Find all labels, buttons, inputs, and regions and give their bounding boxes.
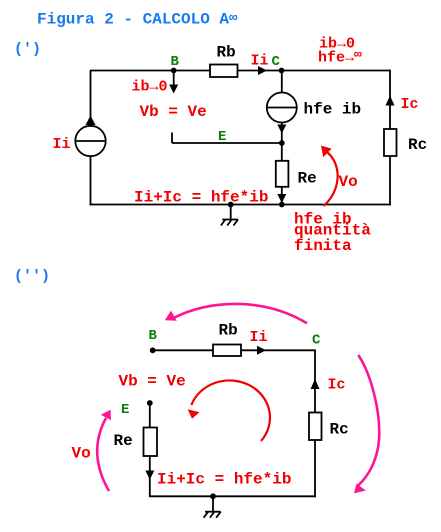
arrow Ii (right, circuit2) xyxy=(257,346,266,355)
magenta arrowhead top (left) xyxy=(165,311,177,321)
wire: circuit1 left rail lower xyxy=(90,156,92,205)
wire: E2 down to Re xyxy=(149,403,151,428)
wire: circuit2 top rail xyxy=(153,349,315,351)
svg-text:('): (') xyxy=(14,41,41,58)
wire: C down to dependent source xyxy=(281,71,283,93)
wire: circuit1 left rail upper xyxy=(90,71,92,127)
svg-text:C: C xyxy=(312,333,321,349)
svg-text:Ic: Ic xyxy=(401,96,419,113)
wire: circuit2 right rail upper xyxy=(314,349,316,412)
wire: circuit2 bottom rail xyxy=(149,495,316,497)
magenta arrowhead right (down-left) xyxy=(354,484,366,494)
magenta arc left Vo (circuit2) xyxy=(97,418,109,491)
red arc arrowhead (circuit2, down-left) xyxy=(188,409,200,419)
resistor Rb xyxy=(210,65,238,78)
svg-text:Ii: Ii xyxy=(251,53,269,70)
arrow (down) below Re xyxy=(277,194,286,203)
svg-text:Rc: Rc xyxy=(330,421,349,439)
red arc (circuit2 loop) xyxy=(191,380,270,441)
wire: circuit2 right rail lower xyxy=(314,440,316,497)
wire: circuit1 right rail upper xyxy=(389,70,391,129)
svg-text:Ii: Ii xyxy=(53,136,71,153)
wire: circuit1 top rail B to C to right xyxy=(90,70,390,72)
svg-text:B: B xyxy=(171,54,180,70)
wire: dependent source to node E junction, with arrow xyxy=(281,123,283,144)
svg-text:Vo: Vo xyxy=(339,173,358,191)
wire: circuit1 right rail lower xyxy=(389,156,391,205)
arrow Ic (up) on right rail xyxy=(386,96,395,106)
wire: circuit1 bottom rail xyxy=(90,204,391,206)
svg-text:Vb = Ve: Vb = Ve xyxy=(140,103,207,121)
red arc Vo (circuit1) xyxy=(324,153,338,207)
title: Figura 2 - CALCOLO A-infinity xyxy=(37,11,238,29)
wire: junction down to Re xyxy=(281,143,283,161)
svg-text:(''): ('') xyxy=(14,268,50,285)
svg-text:Ic: Ic xyxy=(328,377,346,394)
wire: Re2 down to bottom rail with arrow xyxy=(149,456,151,496)
junction dot at Re bottom xyxy=(279,202,285,208)
arrow (down) below dependent source xyxy=(277,125,286,134)
arrow Ii into node C (right) xyxy=(258,66,267,75)
wire: stub below B with arrow ib xyxy=(173,71,175,87)
arrow Ic (up, circuit2) xyxy=(311,379,320,389)
wire: E horizontal with open tick xyxy=(172,133,282,144)
magenta arc top (circuit2) xyxy=(175,304,308,323)
node E junction (dot) xyxy=(279,140,285,146)
node C (dot) xyxy=(279,68,285,74)
svg-text:hfe→∞: hfe→∞ xyxy=(318,47,362,67)
svg-text:hfe ib: hfe ib xyxy=(304,101,362,119)
red arc arrowhead (up) xyxy=(321,146,332,158)
svg-text:Re: Re xyxy=(298,170,317,188)
svg-text:E: E xyxy=(121,402,129,418)
svg-text:B: B xyxy=(149,328,158,344)
svg-text:Re: Re xyxy=(114,432,133,450)
ground (circuit2) xyxy=(204,493,221,517)
node B2 (dot) xyxy=(150,347,156,353)
svg-text:Vo: Vo xyxy=(72,445,91,463)
svg-text:Rb: Rb xyxy=(219,322,238,340)
magenta arc right (circuit2) xyxy=(358,355,380,486)
arrow (down) below Re2 xyxy=(145,471,154,480)
svg-text:Ii: Ii xyxy=(250,329,268,346)
label hfe ib quantita finita (red block) xyxy=(294,211,371,256)
resistor Rc (circuit2) xyxy=(309,413,322,441)
magenta arrowhead left (up-right) xyxy=(101,410,111,421)
label ib->0 hfe->inf (red block) xyxy=(318,36,362,67)
svg-text:Rb: Rb xyxy=(217,44,236,62)
arrow ib (down) xyxy=(169,85,178,94)
svg-text:ib→0: ib→0 xyxy=(132,79,168,96)
resistor Rb (circuit2) xyxy=(213,345,241,357)
node E2 (dot) xyxy=(147,400,153,406)
current source I1 arrow (up) xyxy=(86,116,96,126)
wire: Re down to bottom rail with arrow xyxy=(281,187,283,205)
svg-text:C: C xyxy=(272,54,281,70)
dependent source hfe ib (circle) xyxy=(267,93,297,123)
node B (dot) xyxy=(171,68,177,74)
svg-text:Ii+Ic = hfe*ib: Ii+Ic = hfe*ib xyxy=(157,471,291,489)
ground (circuit1) xyxy=(221,202,238,226)
resistor Re (circuit2) xyxy=(144,428,158,457)
svg-text:Figura 2 - CALCOLO A∞: Figura 2 - CALCOLO A∞ xyxy=(37,11,238,29)
resistor Re (circuit1) xyxy=(276,161,289,187)
svg-text:Vb = Ve: Vb = Ve xyxy=(119,373,186,391)
svg-text:Ii+Ic = hfe*ib: Ii+Ic = hfe*ib xyxy=(134,189,268,207)
current source I1 circle xyxy=(75,126,105,156)
svg-text:E: E xyxy=(218,129,226,145)
resistor Rc xyxy=(384,129,397,156)
svg-text:finita: finita xyxy=(294,237,352,255)
svg-text:Rc: Rc xyxy=(408,136,427,154)
